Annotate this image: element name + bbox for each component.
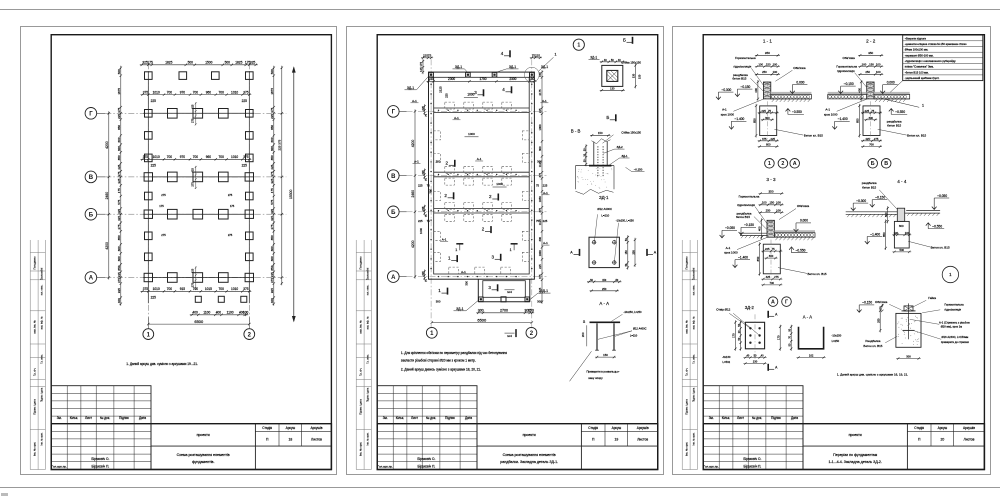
svg-text:зам. інв. №: зам. інв. № xyxy=(32,320,36,334)
svg-text:крок 1000: крок 1000 xyxy=(824,112,838,116)
svg-text:Інв. № ориг.: Інв. № ориг. xyxy=(358,441,362,455)
svg-text:225: 225 xyxy=(241,98,247,102)
svg-text:600: 600 xyxy=(117,256,121,261)
svg-text:425: 425 xyxy=(117,164,121,169)
svg-text:А-1 (Стрижень з різьбою: А-1 (Стрижень з різьбою xyxy=(939,320,970,324)
svg-text:225: 225 xyxy=(542,183,547,187)
svg-text:Інв. № opиг.: Інв. № opиг. xyxy=(692,432,695,445)
svg-text:300: 300 xyxy=(538,146,542,151)
svg-text:400: 400 xyxy=(192,310,198,314)
svg-text:фундаментів.: фундаментів. xyxy=(192,460,215,464)
svg-text:Бетон кл. В15: Бетон кл. В15 xyxy=(807,271,826,275)
svg-text:Біраховіч П.: Біраховіч П. xyxy=(743,464,761,468)
svg-text:Аркуш: Аркуш xyxy=(937,425,947,429)
svg-text:4200: 4200 xyxy=(104,242,108,250)
svg-text:−0.150: −0.150 xyxy=(844,82,854,86)
svg-text:850: 850 xyxy=(752,118,756,123)
svg-text:225: 225 xyxy=(444,93,448,98)
svg-text:А-1: А-1 xyxy=(825,107,830,111)
svg-text:Бетон кл. В15: Бетон кл. В15 xyxy=(804,133,823,137)
svg-text:19: 19 xyxy=(614,437,618,441)
svg-text:Б: Б xyxy=(606,114,609,119)
svg-text:40: 40 xyxy=(746,354,749,357)
svg-text:Стадія: Стадія xyxy=(914,425,924,429)
svg-text:1010: 1010 xyxy=(152,287,159,291)
svg-text:100: 100 xyxy=(776,200,781,204)
svg-text:425: 425 xyxy=(270,215,274,220)
svg-text:850: 850 xyxy=(270,155,274,160)
svg-text:400: 400 xyxy=(857,87,861,92)
svg-text:100: 100 xyxy=(876,70,881,74)
svg-text:зам. інф. №: зам. інф. № xyxy=(40,316,43,329)
svg-text:700: 700 xyxy=(869,142,874,146)
svg-text:250: 250 xyxy=(631,249,635,254)
svg-text:−0.050: −0.050 xyxy=(937,193,947,197)
svg-text:В: В xyxy=(391,173,396,179)
svg-text:300: 300 xyxy=(435,159,440,163)
svg-text:№ док.: № док. xyxy=(100,416,110,420)
svg-text:П: П xyxy=(918,437,921,441)
svg-text:375: 375 xyxy=(243,155,249,159)
svg-text:Кільк.: Кільк. xyxy=(395,416,403,420)
svg-text:700: 700 xyxy=(166,287,172,291)
svg-text:600: 600 xyxy=(117,145,121,150)
svg-text:275: 275 xyxy=(270,224,274,229)
svg-text:250: 250 xyxy=(765,208,770,212)
svg-text:1050: 1050 xyxy=(538,195,542,201)
svg-text:А-1: А-1 xyxy=(722,107,727,111)
svg-text:Горизонтальна: Горизонтальна xyxy=(735,56,756,60)
svg-text:275: 275 xyxy=(874,136,879,140)
svg-text:Аркушів: Аркушів xyxy=(310,425,322,429)
svg-text:Підпис і дата: Підпис і дата xyxy=(358,398,362,414)
svg-text:1: 1 xyxy=(438,288,441,293)
svg-text:Б: Б xyxy=(623,37,626,42)
svg-text:350: 350 xyxy=(765,51,770,55)
svg-text:850: 850 xyxy=(756,256,760,261)
svg-text:18: 18 xyxy=(288,437,292,441)
svg-text:-ущільнений щебінем ґрунт.: -ущільнений щебінем ґрунт. xyxy=(904,76,939,80)
svg-text:915: 915 xyxy=(179,287,185,291)
svg-text:375: 375 xyxy=(270,277,274,282)
svg-text:150: 150 xyxy=(878,305,882,310)
svg-text:№ док.: № док. xyxy=(425,416,435,420)
svg-text:Ø12 А400С: Ø12 А400С xyxy=(597,206,612,210)
svg-text:275: 275 xyxy=(117,224,121,229)
svg-text:А-1: А-1 xyxy=(461,269,466,273)
svg-text:325: 325 xyxy=(270,178,274,183)
svg-text:-10х250: -10х250 xyxy=(831,333,841,337)
svg-text:1: 1 xyxy=(430,331,434,337)
svg-text:75: 75 xyxy=(768,108,771,112)
svg-text:-бетон В15 100 мм.: -бетон В15 100 мм. xyxy=(904,70,928,74)
svg-text:−0.150: −0.150 xyxy=(633,167,642,171)
svg-text:175: 175 xyxy=(117,188,121,193)
svg-text:600: 600 xyxy=(270,145,274,150)
svg-text:1825: 1825 xyxy=(165,60,172,64)
svg-text:−0.550: −0.550 xyxy=(932,224,942,228)
svg-text:2700: 2700 xyxy=(500,308,508,312)
svg-text:-10х250, L=250: -10х250, L=250 xyxy=(615,218,634,222)
svg-text:проекти: проекти xyxy=(848,433,861,437)
svg-text:150: 150 xyxy=(597,131,602,135)
svg-text:Ø4мм 100х100 мм.: Ø4мм 100х100 мм. xyxy=(904,47,928,51)
svg-text:ЗД-1: ЗД-1 xyxy=(621,154,627,158)
svg-text:300: 300 xyxy=(435,299,440,303)
svg-text:−0.550: −0.550 xyxy=(792,110,802,114)
svg-text:Г.к. січ.: Г.к. січ. xyxy=(684,367,688,376)
svg-text:1: 1 xyxy=(922,103,924,107)
svg-text:100: 100 xyxy=(762,200,767,204)
svg-text:А-1: А-1 xyxy=(476,157,481,161)
svg-text:3 - 3: 3 - 3 xyxy=(766,176,776,181)
svg-text:1010: 1010 xyxy=(231,90,238,94)
svg-text:1: 1 xyxy=(509,247,511,251)
svg-text:Підпис і дата: Підпис і дата xyxy=(40,387,43,402)
svg-text:400: 400 xyxy=(884,212,888,217)
svg-text:1010: 1010 xyxy=(152,90,159,94)
svg-text:100: 100 xyxy=(772,70,777,74)
svg-text:по4: по4 xyxy=(507,333,512,337)
svg-text:225: 225 xyxy=(241,163,247,167)
svg-text:−0.050: −0.050 xyxy=(725,226,735,230)
svg-text:375: 375 xyxy=(270,107,274,112)
svg-text:−0.150: −0.150 xyxy=(744,223,754,227)
svg-text:Підпис і дата: Підпис і дата xyxy=(692,387,695,402)
svg-text:225: 225 xyxy=(117,113,121,118)
svg-text:-6х130: -6х130 xyxy=(722,354,731,358)
svg-text:Г.к. опис.: Г.к. опис. xyxy=(40,353,43,363)
svg-text:Рандбалка: Рандбалка xyxy=(865,338,880,342)
svg-text:50: 50 xyxy=(753,354,756,357)
svg-text:-бікерети підлоги: -бікерети підлоги xyxy=(904,36,926,40)
svg-text:Аркуш: Аркуш xyxy=(285,425,295,429)
svg-text:Бетон кл. В15: Бетон кл. В15 xyxy=(907,133,926,137)
svg-text:850: 850 xyxy=(117,155,121,160)
svg-text:зам. інв. №: зам. інв. № xyxy=(684,320,688,334)
svg-text:700: 700 xyxy=(218,155,224,159)
svg-text:500: 500 xyxy=(899,248,904,252)
svg-text:1. Даний аркуш див. сумісно з: 1. Даний аркуш див. сумісно з аркушами 1… xyxy=(126,362,198,366)
svg-text:Стадія: Стадія xyxy=(588,425,598,429)
svg-text:600: 600 xyxy=(117,137,121,142)
svg-text:П: П xyxy=(266,437,269,441)
svg-text:225: 225 xyxy=(420,169,424,174)
svg-text:Погоджено: Погоджено xyxy=(32,256,36,270)
svg-text:Схема розташування елементів: Схема розташування елементів xyxy=(502,453,555,457)
svg-text:А: А xyxy=(88,275,93,281)
svg-text:проекти: проекти xyxy=(522,433,535,437)
svg-text:ЗД-1: ЗД-1 xyxy=(508,65,515,69)
svg-text:425: 425 xyxy=(765,275,770,279)
svg-text:ЗД-2: ЗД-2 xyxy=(745,305,755,310)
svg-text:375: 375 xyxy=(270,171,274,176)
svg-text:Аркушів: Аркушів xyxy=(636,425,648,429)
svg-text:225: 225 xyxy=(765,247,770,251)
svg-text:1000: 1000 xyxy=(468,131,475,135)
svg-text:Зм.: Зм. xyxy=(56,416,61,420)
svg-text:425: 425 xyxy=(270,164,274,169)
svg-text:500: 500 xyxy=(224,60,230,64)
svg-text:850: 850 xyxy=(855,118,859,123)
svg-text:150: 150 xyxy=(625,249,628,254)
svg-text:А - А: А - А xyxy=(599,300,609,305)
svg-text:Стійка 150х150: Стійка 150х150 xyxy=(621,130,641,134)
svg-text:бетон В15: бетон В15 xyxy=(862,185,876,189)
svg-text:275: 275 xyxy=(774,275,779,279)
svg-text:700: 700 xyxy=(769,281,774,285)
svg-text:75: 75 xyxy=(424,278,427,281)
svg-text:закласти різьбові стержні Ø20: закласти різьбові стержні Ø20 мм з кроко… xyxy=(400,358,475,362)
svg-text:Погоджено: Погоджено xyxy=(684,256,688,270)
svg-text:1: 1 xyxy=(447,255,450,260)
svg-text:700: 700 xyxy=(218,287,224,291)
svg-text:2 - 2: 2 - 2 xyxy=(866,38,876,43)
svg-text:Бетон кл. В15: Бетон кл. В15 xyxy=(930,245,949,249)
svg-text:А: А xyxy=(775,312,778,316)
svg-text:вану опору: вану опору xyxy=(588,376,603,380)
svg-text:Приварити в розвальцьо-: Приварити в розвальцьо- xyxy=(586,369,619,373)
svg-text:400: 400 xyxy=(117,298,121,303)
svg-text:Листов: Листов xyxy=(637,437,648,441)
svg-text:700: 700 xyxy=(192,90,198,94)
svg-text:Зм.: Зм. xyxy=(382,416,387,420)
svg-text:375: 375 xyxy=(142,155,148,159)
svg-text:40: 40 xyxy=(603,57,606,61)
svg-text:325: 325 xyxy=(270,208,274,213)
svg-text:150: 150 xyxy=(603,353,608,357)
svg-text:100: 100 xyxy=(876,62,881,66)
svg-text:Г: Г xyxy=(785,299,788,305)
svg-text:1125: 1125 xyxy=(538,219,542,225)
svg-text:−1.400: −1.400 xyxy=(870,232,880,236)
svg-text:300: 300 xyxy=(769,254,774,258)
svg-text:75: 75 xyxy=(426,183,430,187)
svg-text:300: 300 xyxy=(538,236,542,241)
svg-text:2125: 2125 xyxy=(438,86,442,93)
svg-text:П: П xyxy=(591,437,594,441)
svg-text:Аркуш: Аркуш xyxy=(611,425,621,429)
svg-text:1000: 1000 xyxy=(418,227,422,234)
svg-text:150: 150 xyxy=(769,200,774,204)
svg-text:1100: 1100 xyxy=(226,310,233,314)
svg-text:300: 300 xyxy=(868,115,873,119)
svg-text:Лист: Лист xyxy=(737,416,744,420)
svg-text:75: 75 xyxy=(871,108,874,112)
svg-text:75: 75 xyxy=(426,218,430,222)
svg-text:гол. опис.: гол. опис. xyxy=(40,284,43,295)
svg-text:2. Даний аркуш дивись сумісно: 2. Даний аркуш дивись сумісно з аркушами… xyxy=(400,367,480,371)
svg-text:225: 225 xyxy=(117,272,121,277)
svg-text:3: 3 xyxy=(491,254,494,259)
svg-text:960: 960 xyxy=(205,90,211,94)
svg-text:225: 225 xyxy=(864,108,869,112)
svg-text:6500: 6500 xyxy=(477,317,487,322)
svg-text:300: 300 xyxy=(899,224,904,228)
svg-text:зам. інв. №: зам. інв. № xyxy=(358,320,362,334)
svg-text:850: 850 xyxy=(270,265,274,270)
svg-text:Підпис: Підпис xyxy=(771,416,781,420)
svg-text:Підпис і дата: Підпис і дата xyxy=(684,398,688,414)
svg-text:А: А xyxy=(570,250,573,254)
svg-text:1. Для кріплення обв’язки по п: 1. Для кріплення обв’язки по периметру р… xyxy=(400,350,506,354)
svg-text:700: 700 xyxy=(192,155,198,159)
svg-text:1500: 1500 xyxy=(205,60,212,64)
svg-text:Підпис: Підпис xyxy=(445,416,455,420)
svg-text:бетон В15: бетон В15 xyxy=(732,76,746,80)
svg-text:225: 225 xyxy=(420,206,424,211)
svg-text:А-1: А-1 xyxy=(454,115,459,119)
svg-text:375: 375 xyxy=(142,90,148,94)
svg-text:175: 175 xyxy=(147,60,153,64)
svg-text:100: 100 xyxy=(243,310,249,314)
svg-text:225: 225 xyxy=(538,264,542,269)
svg-text:300: 300 xyxy=(765,115,770,119)
svg-text:А-1: А-1 xyxy=(441,237,446,241)
svg-text:0.000: 0.000 xyxy=(887,80,895,84)
svg-text:100: 100 xyxy=(861,62,866,66)
svg-text:125: 125 xyxy=(419,67,423,72)
svg-text:Ёколсовбні: Ёколсовбні xyxy=(40,267,43,280)
svg-text:150: 150 xyxy=(869,62,874,66)
svg-text:1000: 1000 xyxy=(538,249,542,255)
svg-text:225: 225 xyxy=(417,218,422,222)
svg-text:4200: 4200 xyxy=(104,141,108,149)
svg-text:130: 130 xyxy=(631,73,635,78)
svg-text:−0.550: −0.550 xyxy=(795,248,805,252)
svg-text:Б: Б xyxy=(871,161,875,167)
svg-text:425: 425 xyxy=(190,104,194,109)
svg-text:300: 300 xyxy=(464,280,468,285)
svg-text:225: 225 xyxy=(270,113,274,118)
svg-text:10: 10 xyxy=(582,319,585,322)
svg-text:Обв’язка: Обв’язка xyxy=(842,56,855,60)
svg-text:4 - 4: 4 - 4 xyxy=(897,179,907,184)
svg-text:1010: 1010 xyxy=(152,155,159,159)
svg-text:1: 1 xyxy=(146,332,150,338)
svg-text:850: 850 xyxy=(882,232,886,237)
svg-text:Інв. № ориг.: Інв. № ориг. xyxy=(684,441,688,455)
svg-text:400: 400 xyxy=(754,87,758,92)
svg-text:Г.к. січ.: Г.к. січ. xyxy=(32,367,36,376)
svg-text:Горизонтальна: Горизонтальна xyxy=(836,64,857,68)
svg-text:Кільк.: Кільк. xyxy=(69,416,77,420)
svg-text:крок 1000: крок 1000 xyxy=(720,112,734,116)
svg-text:250: 250 xyxy=(876,318,880,323)
svg-text:225: 225 xyxy=(150,295,156,299)
svg-text:2300: 2300 xyxy=(448,77,455,81)
svg-text:700: 700 xyxy=(166,90,172,94)
svg-text:225: 225 xyxy=(417,183,422,187)
svg-text:850: 850 xyxy=(117,124,121,129)
svg-text:Дата: Дата xyxy=(791,416,798,420)
svg-text:Інв. № ориг.: Інв. № ориг. xyxy=(32,441,36,455)
svg-text:225: 225 xyxy=(535,53,540,57)
svg-text:Біраховіч О.: Біраховіч О. xyxy=(743,457,761,461)
svg-text:50: 50 xyxy=(610,57,613,61)
svg-text:4200: 4200 xyxy=(410,240,414,248)
svg-text:проекти: проекти xyxy=(196,433,209,437)
svg-text:1. Даний аркуш див. сумісно з: 1. Даний аркуш див. сумісно з аркушами 1… xyxy=(837,372,908,376)
svg-text:Гол.арх.пр.: Гол.арх.пр. xyxy=(377,464,392,468)
svg-text:плівка "Славянка" 3мм.: плівка "Славянка" 3мм. xyxy=(904,64,933,68)
svg-text:2300: 2300 xyxy=(509,77,516,81)
svg-text:170: 170 xyxy=(731,333,735,338)
svg-text:400: 400 xyxy=(757,226,761,231)
svg-text:4: 4 xyxy=(502,86,505,91)
svg-text:170: 170 xyxy=(776,335,780,340)
svg-text:Підпис і дата: Підпис і дата xyxy=(366,387,369,402)
svg-text:В: В xyxy=(88,175,93,181)
svg-text:ЗД-2: ЗД-2 xyxy=(616,145,622,149)
svg-text:100: 100 xyxy=(772,62,777,66)
svg-text:350: 350 xyxy=(868,51,873,55)
svg-text:Обв’язка: Обв’язка xyxy=(797,204,810,208)
svg-text:325: 325 xyxy=(250,60,256,64)
svg-text:162: 162 xyxy=(809,353,814,357)
svg-text:250: 250 xyxy=(602,286,607,290)
svg-text:−0.150: −0.150 xyxy=(862,300,872,304)
svg-text:2: 2 xyxy=(445,160,448,165)
svg-text:Гол.арх.пр.: Гол.арх.пр. xyxy=(703,464,718,468)
svg-text:1-1...4-4. Закладна деталь ЗД-: 1-1...4-4. Закладна деталь ЗД-2. xyxy=(828,460,881,464)
svg-text:Зм.: Зм. xyxy=(708,416,713,420)
svg-text:0.000: 0.000 xyxy=(800,218,808,222)
svg-text:375: 375 xyxy=(538,172,542,177)
svg-text:130: 130 xyxy=(610,86,615,90)
svg-text:Дата: Дата xyxy=(464,416,471,420)
svg-text:275: 275 xyxy=(228,193,233,197)
svg-text:рандбалки. Закладна деталь ЗД-: рандбалки. Закладна деталь ЗД-1. xyxy=(500,460,558,464)
svg-text:Обв’язка: Обв’язка xyxy=(875,299,888,303)
svg-text:Отвір Ø12: Отвір Ø12 xyxy=(716,307,730,311)
svg-text:Біраховіч О.: Біраховіч О. xyxy=(91,457,109,461)
svg-text:А: А xyxy=(653,250,656,254)
svg-text:850: 850 xyxy=(117,265,121,270)
svg-text:300: 300 xyxy=(906,354,911,358)
svg-text:75: 75 xyxy=(424,113,427,116)
svg-text:225: 225 xyxy=(538,108,542,113)
svg-text:-гідроізоляція з наплавленого: -гідроізоляція з наплавленого руберойду xyxy=(904,59,956,63)
svg-text:375: 375 xyxy=(117,277,121,282)
svg-text:Ø20 мм), крок 1м: Ø20 мм), крок 1м xyxy=(941,324,962,328)
svg-text:по4: по4 xyxy=(507,289,512,293)
svg-text:1000: 1000 xyxy=(538,124,542,130)
svg-text:425: 425 xyxy=(865,136,870,140)
svg-text:бетон В15: бетон В15 xyxy=(736,215,750,219)
svg-text:Гайка: Гайка xyxy=(928,295,936,299)
svg-text:50: 50 xyxy=(615,278,618,281)
svg-text:1 - 1: 1 - 1 xyxy=(763,38,773,43)
svg-text:Б: Б xyxy=(88,212,93,218)
svg-text:Горизонтальна: Горизонтальна xyxy=(738,194,759,198)
svg-text:175: 175 xyxy=(159,203,164,207)
svg-text:400: 400 xyxy=(270,298,274,303)
svg-text:50: 50 xyxy=(590,278,593,281)
svg-text:1000: 1000 xyxy=(496,182,503,186)
svg-text:150: 150 xyxy=(538,72,542,77)
svg-text:2: 2 xyxy=(489,194,492,199)
svg-text:-10х250, L=250: -10х250, L=250 xyxy=(623,310,642,314)
svg-text:Г: Г xyxy=(89,111,93,117)
svg-text:Гол.арх.пр.: Гол.арх.пр. xyxy=(51,464,66,468)
svg-text:1825: 1825 xyxy=(235,60,242,64)
svg-text:1: 1 xyxy=(768,161,771,167)
svg-text:Перерізи по фундаментам: Перерізи по фундаментам xyxy=(833,453,878,457)
svg-text:бетон В15: бетон В15 xyxy=(887,123,901,127)
svg-text:1: 1 xyxy=(554,52,556,56)
svg-text:275: 275 xyxy=(190,118,194,123)
